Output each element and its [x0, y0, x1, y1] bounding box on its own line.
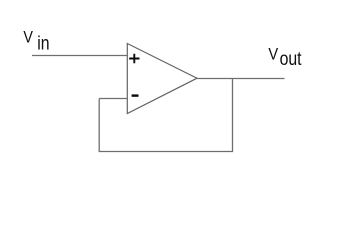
svg-text:V: V	[268, 46, 278, 64]
wire input Vin to non-inverting input	[32, 55, 127, 57]
node Vin label	[23, 29, 49, 54]
svg-text:out: out	[280, 48, 302, 70]
pin + (non-inverting input marker)	[129, 54, 139, 63]
svg-text:in: in	[37, 32, 49, 54]
wire output from apex to Vout	[197, 78, 285, 80]
svg-text:V: V	[23, 29, 33, 47]
pin - (inverting input marker)	[132, 94, 139, 96]
wire inverting input stub	[99, 98, 127, 100]
op-amp U1 triangle	[127, 44, 197, 114]
wire feedback loop from output node down and around to inverting input	[99, 78, 232, 151]
node Vout label	[268, 46, 301, 70]
